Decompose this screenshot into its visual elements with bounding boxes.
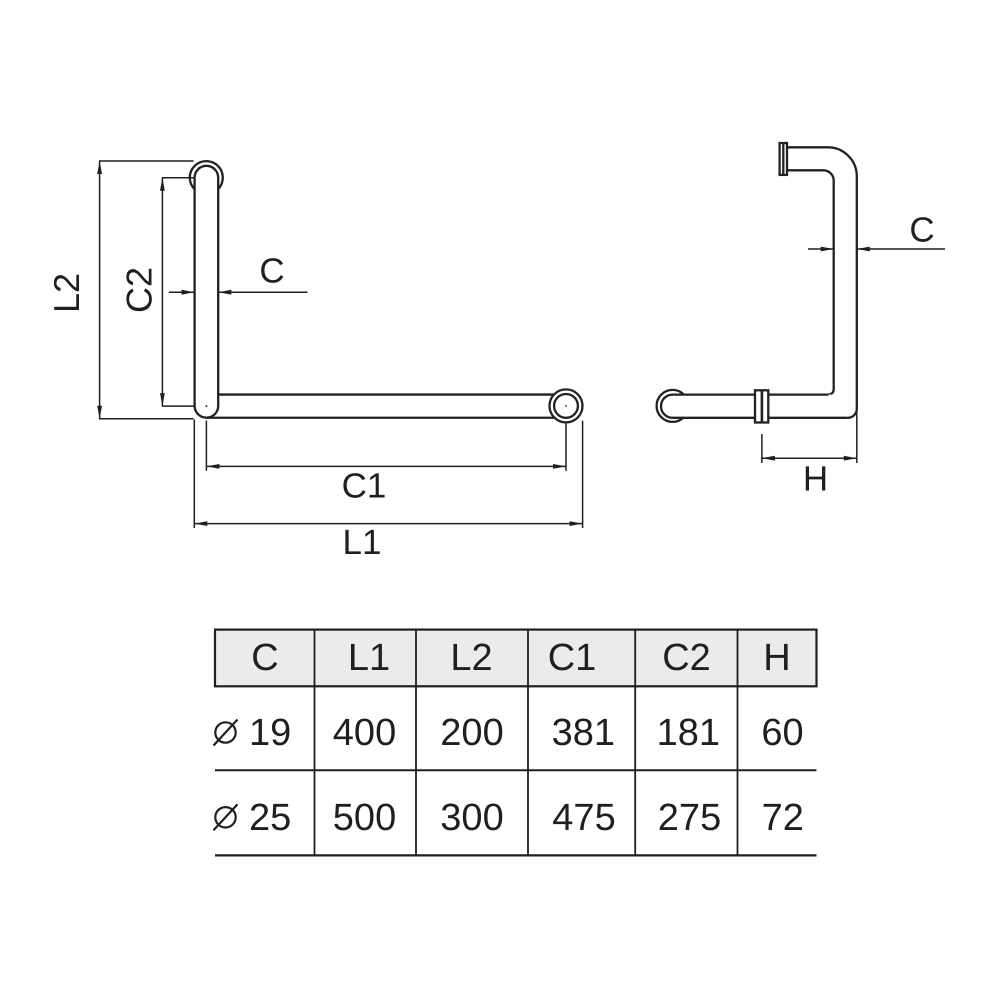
- dim C (front view) arrow left: [218, 290, 231, 295]
- dim H line: [762, 457, 857, 459]
- svg-text:L2: L2: [450, 637, 492, 679]
- side view: tube inner contour: [787, 170, 834, 394]
- table row separator: [215, 769, 817, 771]
- dim C2 extension lines: [162, 178, 195, 406]
- dim L2 arrow down: [97, 406, 102, 419]
- svg-text:25: 25: [249, 797, 291, 839]
- svg-text:C: C: [259, 252, 284, 291]
- dim L1 line: [194, 523, 582, 525]
- side view: tube outer contour: [787, 147, 857, 418]
- svg-text:275: 275: [658, 797, 721, 839]
- dim C2 line: [161, 178, 163, 406]
- front view: right end center dot: [565, 405, 567, 407]
- side view: collar: [755, 390, 768, 422]
- table header background: [215, 630, 817, 687]
- dim L1 arrow right: [570, 521, 583, 526]
- dim H extension lines: [762, 412, 857, 464]
- side view: collar divider: [761, 390, 764, 422]
- dim C1 arrow left: [206, 464, 219, 469]
- svg-text:72: 72: [762, 797, 804, 839]
- dim C2 arrow up: [160, 178, 165, 191]
- dim L2 line: [99, 161, 101, 419]
- front view: horizontal tube top edge: [218, 393, 566, 395]
- side view: lower tube white fill: [661, 395, 846, 418]
- svg-text:C2: C2: [119, 267, 160, 313]
- table column lines: [315, 630, 738, 856]
- dim C2 arrow down: [160, 393, 165, 406]
- dim C1 arrow right: [553, 464, 566, 469]
- svg-text:475: 475: [552, 797, 615, 839]
- dim C (front view) right segment: [218, 291, 307, 293]
- svg-text:C1: C1: [548, 637, 597, 679]
- dim L2 arrow up: [97, 161, 102, 174]
- svg-text:C: C: [909, 211, 934, 250]
- table row 1: diameter symbol: [215, 722, 235, 742]
- dim H arrow left: [762, 456, 775, 461]
- dim C (side view) left segment: [808, 248, 834, 250]
- table row 2: diameter symbol: [215, 807, 235, 827]
- dim C (side view) right segment: [857, 248, 945, 250]
- front view: horizontal tube bottom edge: [207, 417, 567, 419]
- svg-text:200: 200: [440, 712, 503, 754]
- svg-text:L2: L2: [46, 273, 87, 313]
- svg-text:300: 300: [440, 797, 503, 839]
- svg-text:60: 60: [761, 712, 803, 754]
- dim L1 arrow left: [194, 521, 207, 526]
- dim C1 line: [206, 465, 566, 467]
- dim C (front view) left segment: [169, 291, 195, 293]
- side view: wall flange plate: [780, 143, 787, 175]
- front view: corner center dot: [205, 405, 207, 407]
- svg-text:181: 181: [657, 712, 720, 754]
- svg-text:H: H: [803, 460, 828, 499]
- front view: right end outer circle: [550, 389, 583, 422]
- svg-text:L1: L1: [348, 637, 390, 679]
- dim L1 extension lines: [194, 420, 582, 529]
- svg-text:C: C: [251, 637, 278, 679]
- dim H arrow right: [844, 456, 857, 461]
- side view: wall flange divider: [782, 143, 784, 175]
- front view: top end flange circle: [190, 161, 223, 194]
- front view: vertical tube (capsule): [195, 166, 219, 418]
- table bottom line: [215, 854, 817, 856]
- svg-text:C1: C1: [342, 466, 387, 505]
- side view: lower tube edges with end cap: [661, 395, 848, 418]
- svg-text:19: 19: [249, 712, 291, 754]
- dim C (side view) arrow left: [857, 247, 870, 252]
- dim C1 extension lines: [206, 421, 566, 471]
- svg-text:L1: L1: [343, 523, 382, 562]
- svg-text:400: 400: [333, 712, 396, 754]
- side view: lower end outer circle: [657, 390, 689, 422]
- svg-text:381: 381: [552, 712, 615, 754]
- svg-text:500: 500: [333, 797, 396, 839]
- front view: right end inner circle: [554, 394, 578, 418]
- dim C (front view) arrow right: [182, 290, 195, 295]
- dim C (side view) arrow right: [821, 247, 834, 252]
- svg-text:H: H: [763, 637, 790, 679]
- svg-text:C2: C2: [662, 637, 711, 679]
- dim L2 extension lines: [99, 161, 194, 419]
